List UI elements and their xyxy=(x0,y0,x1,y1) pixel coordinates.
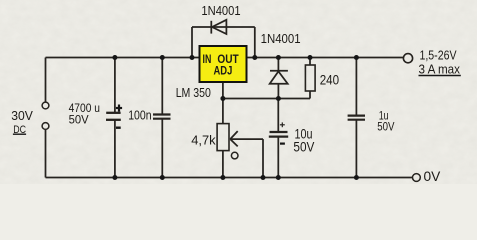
capacitor C2 100n plates xyxy=(153,115,171,119)
node bottom rail C4 xyxy=(354,175,359,180)
capacitor C3 minus mark xyxy=(280,143,285,145)
wire capacitor C1 bottom xyxy=(114,120,116,178)
svg-text:50V: 50V xyxy=(69,112,89,126)
wire capacitor C1 top xyxy=(114,58,116,113)
wire diode D1 right vertical xyxy=(254,27,256,58)
node input rail C1 xyxy=(112,55,117,60)
wire input - to bottom rail xyxy=(45,130,47,178)
node ADJ rail D2 C3 xyxy=(276,96,281,101)
capacitor C3 10u plates xyxy=(269,132,288,137)
svg-text:240: 240 xyxy=(320,72,339,87)
svg-text:3 A max: 3 A max xyxy=(419,62,461,77)
wire regulator ADJ pin xyxy=(222,82,224,124)
background paper xyxy=(0,0,477,184)
wire capacitor C3 top xyxy=(277,99,279,132)
regulator U1 LM350 body xyxy=(200,46,247,82)
svg-text:50V: 50V xyxy=(377,119,394,133)
potentiometer P1 wiper arrow xyxy=(230,131,263,146)
potentiometer P1 body xyxy=(217,124,229,151)
svg-text:100n: 100n xyxy=(128,107,151,122)
svg-text:1N4001: 1N4001 xyxy=(261,31,301,46)
terminal 0V xyxy=(413,174,421,182)
wire capacitor C4 top xyxy=(355,58,357,116)
potentiometer terminal circle xyxy=(231,152,238,159)
label 3 A max underline xyxy=(419,75,461,77)
wire bottom rail xyxy=(46,177,413,179)
node input rail D1 xyxy=(190,55,195,60)
wire input drop to + terminal xyxy=(45,58,47,103)
svg-text:30V: 30V xyxy=(11,108,33,123)
capacitor C1 plus mark xyxy=(116,105,122,112)
node input rail C2 xyxy=(160,55,165,60)
svg-text:0V: 0V xyxy=(424,169,442,184)
capacitor C1 minus mark xyxy=(116,126,121,128)
svg-text:1,5-26V: 1,5-26V xyxy=(420,48,457,63)
svg-text:4,7k: 4,7k xyxy=(191,133,216,148)
capacitor C1 4700u plates xyxy=(106,113,121,120)
svg-text:ADJ: ADJ xyxy=(214,66,233,78)
svg-text:50V: 50V xyxy=(293,139,314,154)
node output rail R1 xyxy=(308,55,313,60)
node bottom rail C2 xyxy=(160,175,165,180)
svg-text:IN: IN xyxy=(203,54,212,66)
wire input rail xyxy=(46,57,200,59)
wire capacitor C2 bottom xyxy=(161,119,163,178)
node output rail D2 xyxy=(276,55,281,60)
node bottom rail wiper xyxy=(261,175,266,180)
node bottom rail C3 xyxy=(276,175,281,180)
terminal input + xyxy=(42,102,49,109)
svg-text:1N4001: 1N4001 xyxy=(201,3,240,18)
wire diode D1 left vertical xyxy=(191,27,193,58)
wire potentiometer bottom xyxy=(222,151,224,178)
wire resistor R1 top xyxy=(309,58,311,66)
resistor R1 240 body xyxy=(305,65,315,91)
terminal output xyxy=(403,54,412,63)
svg-text:LM 350: LM 350 xyxy=(176,85,211,100)
node bottom rail C1 xyxy=(112,175,117,180)
wire capacitor C2 top xyxy=(161,58,163,115)
node output rail D1 xyxy=(252,55,257,60)
wire wiper to bottom rail xyxy=(262,139,264,177)
terminal input - xyxy=(42,123,49,130)
capacitor C4 1u plates xyxy=(348,116,365,120)
wire resistor R1 bottom xyxy=(309,91,311,99)
capacitor C3 plus mark xyxy=(280,122,285,127)
wire diode D1 top horizontal xyxy=(192,26,255,28)
label DC underline xyxy=(13,133,26,135)
diode D1 1N4001 top xyxy=(211,20,226,34)
wire output rail xyxy=(247,57,404,59)
diode D2 1N4001 vertical xyxy=(270,58,288,99)
node bottom rail pot xyxy=(220,175,225,180)
node output rail C4 xyxy=(354,55,359,60)
svg-text:OUT: OUT xyxy=(217,54,238,66)
wire capacitor C4 bottom xyxy=(355,120,357,178)
node ADJ rail pot xyxy=(220,96,225,101)
wire ADJ rail xyxy=(223,98,310,100)
wire capacitor C3 bottom xyxy=(277,137,279,178)
